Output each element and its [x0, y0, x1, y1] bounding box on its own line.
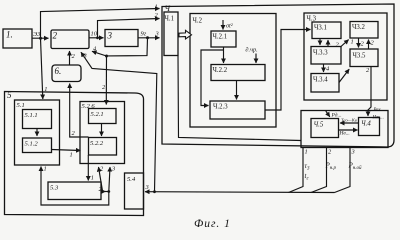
svg-text:5.1.1: 5.1.1: [25, 112, 38, 119]
svg-text:5.2.2: 5.2.2: [90, 140, 104, 147]
svg-text:Ч.3.4: Ч.3.4: [313, 77, 328, 84]
svg-text:Ч: Ч: [165, 4, 171, 13]
svg-text:1.: 1.: [6, 30, 13, 40]
svg-text:5.4: 5.4: [127, 176, 136, 183]
svg-text:1: 1: [91, 175, 94, 182]
svg-text:Ч.2.1: Ч.2.1: [213, 34, 228, 41]
svg-text:Нв...: Нв...: [339, 131, 350, 137]
svg-text:τ3: τ3: [305, 162, 311, 172]
svg-text:2: 2: [155, 12, 159, 19]
svg-text:3: 3: [107, 31, 113, 41]
svg-text:5: 5: [7, 90, 12, 100]
svg-text:Фиг. 1: Фиг. 1: [194, 218, 231, 230]
svg-text:3: 3: [145, 184, 149, 191]
svg-text:1: 1: [44, 86, 47, 93]
svg-text:tг: tг: [305, 172, 309, 182]
svg-text:Ч.2.2: Ч.2.2: [213, 67, 228, 74]
svg-text:4: 4: [93, 46, 97, 53]
svg-text:5.1: 5.1: [17, 102, 25, 109]
svg-text:3: 3: [111, 166, 115, 173]
svg-text:3: 3: [351, 149, 355, 156]
svg-text:10: 10: [91, 31, 98, 38]
svg-text:Pд...: Pд...: [331, 112, 342, 119]
svg-text:5.2.1: 5.2.1: [91, 111, 104, 118]
svg-text:Нвх...: Нвх...: [372, 116, 384, 121]
svg-text:Pвх...: Pвх...: [373, 108, 385, 113]
svg-text:Тсо—Кв: Тсо—Кв: [341, 118, 357, 123]
svg-text:2: 2: [371, 40, 375, 47]
svg-text:Ч.1: Ч.1: [165, 16, 175, 23]
svg-text:σt²: σt²: [226, 23, 233, 30]
svg-text:∂.чр.: ∂.чр.: [246, 47, 258, 54]
svg-text:Ч.5: Ч.5: [314, 122, 324, 129]
svg-text:2: 2: [100, 166, 104, 173]
svg-text:2: 2: [72, 130, 76, 137]
svg-text:Ч.4: Ч.4: [361, 121, 371, 128]
svg-text:Ч3.1: Ч3.1: [314, 25, 327, 32]
svg-text:1: 1: [155, 4, 158, 11]
svg-text:1: 1: [351, 39, 354, 46]
svg-text:3: 3: [83, 53, 87, 60]
svg-text:5.1.2: 5.1.2: [25, 141, 39, 148]
svg-text:2: 2: [102, 84, 106, 91]
svg-text:5.3: 5.3: [50, 185, 59, 192]
svg-text:6.: 6.: [55, 66, 62, 76]
svg-text:2: 2: [72, 53, 76, 60]
svg-text:2: 2: [328, 149, 332, 156]
svg-text:1: 1: [305, 149, 308, 156]
svg-text:Ч.3: Ч.3: [307, 16, 317, 23]
svg-text:Ч.2: Ч.2: [193, 18, 203, 25]
svg-text:1: 1: [70, 152, 73, 159]
svg-text:5.2 6: 5.2 6: [82, 103, 96, 110]
svg-text:Э3: Э3: [33, 31, 40, 38]
svg-text:9г: 9г: [141, 31, 147, 38]
svg-text:2: 2: [361, 41, 365, 48]
svg-text:Ч3.5: Ч3.5: [353, 53, 367, 60]
svg-text:Ч.3.3: Ч.3.3: [313, 50, 328, 57]
svg-text:2: 2: [53, 31, 58, 41]
svg-text:2: 2: [336, 42, 340, 49]
svg-text:1: 1: [44, 166, 47, 173]
svg-text:2: 2: [366, 67, 370, 74]
svg-text:4: 4: [326, 66, 330, 73]
svg-text:3: 3: [155, 31, 159, 38]
svg-text:Ч.2.3: Ч.2.3: [213, 104, 228, 111]
svg-text:Ч3.2: Ч3.2: [352, 24, 366, 31]
